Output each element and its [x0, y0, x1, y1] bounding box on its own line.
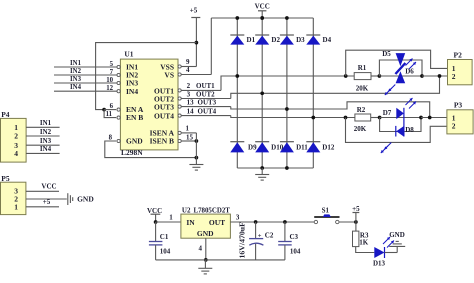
svg-text:U1: U1 — [124, 50, 133, 59]
svg-text:10: 10 — [106, 77, 113, 84]
svg-text:1: 1 — [14, 123, 18, 132]
svg-text:ISEN B: ISEN B — [150, 137, 174, 146]
svg-text:GND: GND — [77, 195, 94, 204]
svg-text:OUT3: OUT3 — [154, 103, 174, 112]
svg-text:EN B: EN B — [126, 113, 143, 122]
svg-text:U2: U2 — [182, 206, 191, 214]
svg-text:P3: P3 — [454, 101, 463, 110]
svg-text:D11: D11 — [296, 144, 308, 152]
svg-text:2: 2 — [187, 82, 191, 90]
svg-text:P2: P2 — [454, 51, 463, 60]
svg-text:2: 2 — [452, 72, 456, 81]
svg-text:1: 1 — [186, 124, 190, 132]
svg-text:S1: S1 — [322, 206, 330, 214]
svg-text:OUT3: OUT3 — [198, 98, 217, 106]
svg-text:VS: VS — [164, 71, 174, 80]
svg-text:+5: +5 — [352, 205, 360, 213]
svg-text:IN2: IN2 — [40, 128, 52, 136]
svg-text:IN3: IN3 — [40, 137, 52, 145]
svg-text:IN4: IN4 — [70, 84, 82, 91]
svg-text:1K: 1K — [359, 238, 369, 246]
svg-text:1: 1 — [169, 214, 173, 222]
svg-text:7: 7 — [110, 69, 114, 76]
svg-text:D5: D5 — [382, 50, 391, 58]
svg-text:IN1: IN1 — [70, 60, 82, 67]
svg-text:15: 15 — [186, 134, 194, 142]
svg-text:2: 2 — [452, 121, 456, 130]
svg-text:OUT2: OUT2 — [196, 90, 215, 98]
svg-text:VCC: VCC — [255, 3, 270, 11]
svg-text:R1: R1 — [358, 64, 367, 72]
svg-text:104: 104 — [160, 247, 171, 255]
svg-text:20K: 20K — [356, 85, 369, 93]
svg-text:4: 4 — [186, 66, 190, 74]
svg-text:L298N: L298N — [121, 148, 143, 157]
svg-text:OUT4: OUT4 — [154, 112, 174, 121]
svg-text:D8: D8 — [405, 126, 414, 134]
svg-text:P4: P4 — [1, 110, 10, 119]
svg-text:12: 12 — [106, 85, 113, 92]
svg-text:3: 3 — [187, 90, 191, 98]
svg-text:8: 8 — [109, 135, 113, 142]
svg-text:GND: GND — [389, 231, 405, 239]
svg-text:+5: +5 — [190, 7, 198, 15]
svg-text:P5: P5 — [1, 174, 10, 183]
svg-text:9: 9 — [186, 58, 190, 66]
svg-text:IN1: IN1 — [40, 119, 52, 127]
svg-text:11: 11 — [106, 111, 113, 118]
svg-text:OUT1: OUT1 — [196, 82, 215, 90]
svg-text:GND: GND — [126, 137, 143, 146]
svg-text:20K: 20K — [354, 125, 367, 133]
svg-text:+: + — [258, 232, 262, 239]
svg-text:4: 4 — [14, 149, 18, 158]
svg-text:5: 5 — [110, 61, 114, 68]
svg-text:D12: D12 — [322, 144, 335, 152]
svg-text:IN4: IN4 — [126, 87, 138, 96]
svg-text:C1: C1 — [160, 233, 169, 241]
svg-text:16V/470uF: 16V/470uF — [238, 222, 247, 259]
svg-text:GND: GND — [197, 229, 214, 238]
svg-text:6: 6 — [110, 103, 114, 110]
svg-text:IN: IN — [186, 218, 195, 227]
svg-text:13: 13 — [187, 98, 195, 106]
svg-text:VCC: VCC — [41, 183, 56, 191]
svg-text:2: 2 — [14, 132, 18, 141]
svg-text:104: 104 — [290, 247, 301, 255]
svg-text:14: 14 — [187, 107, 195, 115]
svg-text:OUT: OUT — [209, 218, 225, 227]
svg-text:L7805CD2T: L7805CD2T — [194, 207, 231, 214]
svg-text:IN2: IN2 — [70, 68, 82, 75]
svg-text:R2: R2 — [357, 106, 366, 114]
svg-text:C3: C3 — [290, 233, 299, 241]
svg-text:D4: D4 — [323, 36, 332, 44]
svg-text:D7: D7 — [383, 109, 392, 117]
svg-text:D3: D3 — [296, 36, 305, 44]
svg-text:C2: C2 — [265, 231, 274, 239]
svg-text:1: 1 — [14, 202, 18, 211]
svg-text:+5: +5 — [43, 198, 51, 206]
svg-text:3: 3 — [236, 214, 240, 222]
svg-text:IN3: IN3 — [70, 76, 82, 83]
svg-text:D1: D1 — [247, 36, 256, 44]
svg-text:4: 4 — [199, 245, 203, 253]
svg-text:IN4: IN4 — [40, 145, 52, 153]
svg-text:OUT4: OUT4 — [198, 107, 217, 115]
svg-text:D9: D9 — [248, 144, 257, 152]
svg-text:D2: D2 — [271, 36, 280, 44]
svg-text:D13: D13 — [373, 260, 386, 268]
